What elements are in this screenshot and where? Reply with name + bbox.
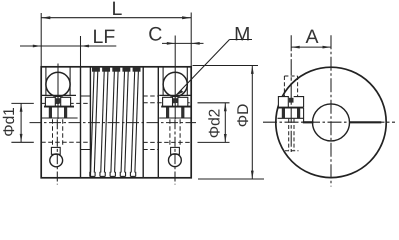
left counterbore walls (45, 67, 47, 96)
end view screw stems (282, 109, 285, 119)
end view clamp boss edge (303, 108, 305, 123)
left clamp seat line (42, 94, 76, 96)
right screw hole hidden lines (170, 119, 180, 147)
right clamp bottom line (159, 117, 191, 119)
right screw centerline (174, 64, 176, 120)
svg-text:Φd1: Φd1 (1, 107, 18, 137)
end view slit left (303, 121, 314, 123)
left bottom screw circle (50, 154, 63, 167)
right bottom thread rect (171, 147, 180, 154)
left screw hole hidden lines (53, 119, 63, 147)
side view main centerline (30, 122, 197, 124)
extension line right face top (190, 13, 192, 67)
end view clamp bottom line (278, 117, 304, 119)
end view screw tip block (289, 98, 294, 103)
end view screw hole hidden lines (284, 76, 298, 151)
left screw shank stems (49, 108, 52, 118)
left bottom thread rect (51, 147, 60, 154)
end view horizontal centerline (263, 121, 395, 123)
dimension phi d2 (198, 103, 230, 143)
end view clamp staple right (294, 97, 304, 108)
dimension A (291, 46, 331, 49)
right clamp screw head circle (163, 72, 187, 96)
slit zone left boundary (89, 67, 91, 178)
spring blade 4 (120, 66, 130, 176)
extension line hub face LF (80, 36, 82, 67)
end view slit right (350, 121, 381, 123)
end view outer circle (276, 67, 386, 177)
left screw centerline bottom (56, 119, 58, 184)
svg-text:C: C (148, 24, 162, 46)
end view clamp slit thick line (278, 107, 304, 109)
svg-text:ΦD: ΦD (235, 104, 252, 128)
right clamp staple left (163, 97, 173, 106)
bore hidden line bottom right (d2) (143, 141, 191, 143)
right screw centerline bottom (174, 119, 176, 184)
dimension phi D (193, 66, 265, 180)
right hub face line (157, 67, 159, 178)
extension line screw center C (174, 36, 176, 64)
spring blade 5 (130, 66, 140, 176)
right clamp staple right (178, 97, 188, 106)
plain ring groove lines (81, 96, 159, 150)
right counterbore walls (162, 67, 164, 96)
leader M (176, 40, 252, 96)
spring blade 1 (90, 66, 100, 176)
svg-text:M: M (234, 23, 250, 45)
right clamp slit thick line (161, 106, 191, 108)
extension line left face (40, 13, 42, 67)
dimension phi d1 (11, 103, 33, 142)
svg-text:L: L (111, 0, 122, 20)
bore hidden line top right (d2) (143, 102, 191, 104)
left clamp bottom line (42, 117, 78, 119)
svg-text:LF: LF (92, 26, 115, 48)
dimension C line (162, 42, 204, 45)
left screw centerline (57, 64, 59, 120)
left clamp staple left (45, 97, 55, 106)
end view clamp staple left (278, 97, 288, 108)
left hub face line (80, 67, 82, 178)
bore hidden line bottom left (d1) (41, 141, 90, 143)
left clamp slit thick line (44, 106, 74, 108)
right screw tip block (173, 98, 178, 103)
end view bore circle (313, 104, 350, 141)
slit zone right boundary (142, 67, 144, 178)
right clamp seat line (159, 94, 191, 96)
left clamp staple right (61, 97, 71, 106)
bore hidden line top left (d1) (41, 102, 90, 104)
svg-text:A: A (305, 26, 318, 48)
end view screw centerline (290, 35, 292, 152)
left screw tip block (56, 98, 61, 103)
end view vertical centerline (330, 35, 332, 186)
spring blade 3 (110, 66, 120, 176)
left clamp screw head circle (46, 72, 70, 96)
right screw shank stems (166, 108, 169, 118)
right bottom screw circle (169, 154, 182, 167)
dimension LF line (20, 45, 116, 48)
spring blade 2 (100, 66, 110, 176)
dimension L line (41, 16, 191, 19)
svg-text:Φd2: Φd2 (206, 109, 223, 139)
side view body outline (41, 67, 191, 178)
